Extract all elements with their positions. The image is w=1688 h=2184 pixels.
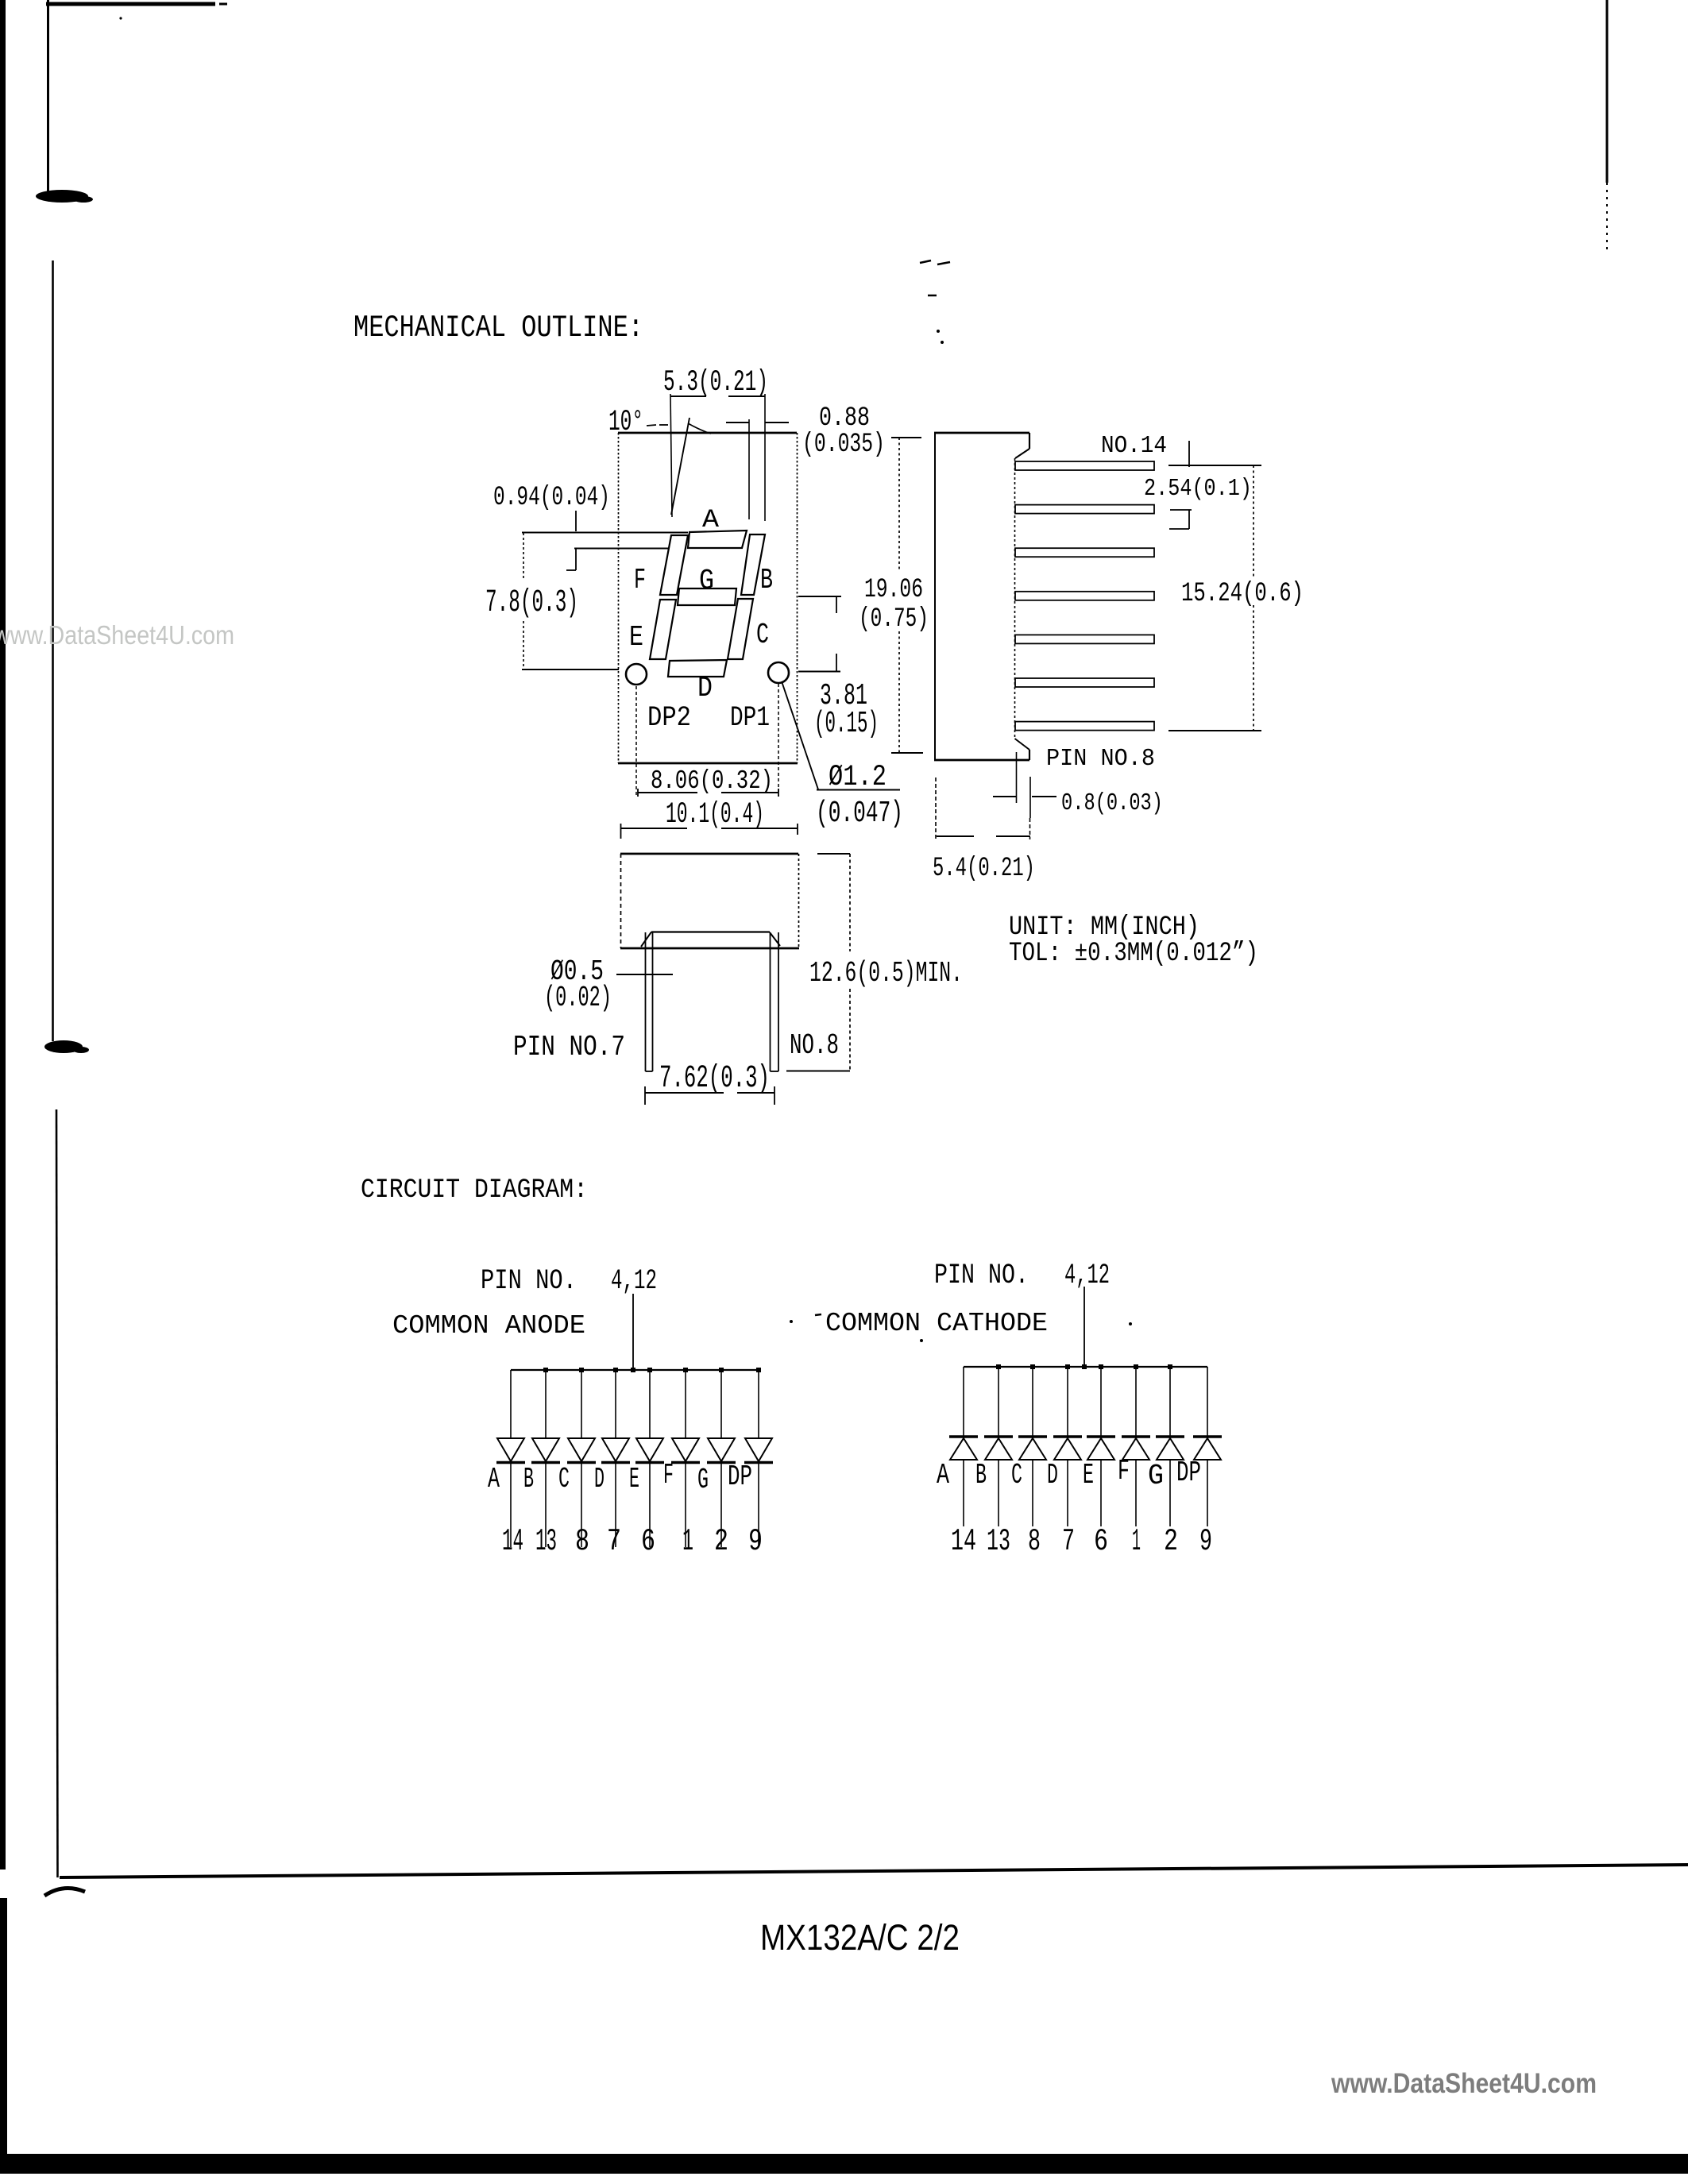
svg-text:B: B — [523, 1463, 534, 1495]
svg-text:(0.15): (0.15) — [814, 707, 879, 741]
svg-text:8: 8 — [1028, 1524, 1041, 1559]
svg-text:0.94(0.04): 0.94(0.04) — [493, 483, 610, 513]
svg-text:D: D — [697, 672, 713, 704]
svg-text:MECHANICAL OUTLINE:: MECHANICAL OUTLINE: — [353, 311, 643, 345]
svg-text:(0.02): (0.02) — [544, 982, 612, 1014]
svg-text:B: B — [975, 1459, 987, 1491]
svg-text:DP2: DP2 — [647, 702, 691, 734]
svg-text:G: G — [697, 1464, 709, 1496]
svg-text:7: 7 — [1062, 1524, 1075, 1559]
svg-text:0.8(0.03): 0.8(0.03) — [1061, 789, 1163, 817]
svg-text:E: E — [1083, 1459, 1094, 1491]
svg-text:PIN NO.: PIN NO. — [481, 1265, 577, 1297]
svg-text:A: A — [937, 1459, 949, 1491]
svg-text:DP: DP — [728, 1461, 752, 1493]
svg-text:8: 8 — [575, 1524, 589, 1559]
svg-text:NO.8: NO.8 — [790, 1029, 839, 1062]
svg-text:(0.75): (0.75) — [859, 604, 929, 635]
svg-text:13: 13 — [535, 1524, 557, 1559]
svg-text:7.8(0.3): 7.8(0.3) — [485, 585, 578, 621]
svg-text:5.4(0.21): 5.4(0.21) — [933, 854, 1035, 884]
svg-text:PIN NO.8: PIN NO.8 — [1046, 745, 1155, 773]
svg-text:(0.047): (0.047) — [816, 797, 903, 831]
svg-text:A: A — [488, 1463, 500, 1495]
svg-text:G: G — [699, 565, 714, 597]
svg-text:8.06(0.32): 8.06(0.32) — [651, 766, 773, 796]
svg-text:4,12: 4,12 — [1064, 1260, 1110, 1291]
svg-text:2: 2 — [1164, 1524, 1178, 1559]
svg-text:F: F — [663, 1459, 674, 1491]
svg-text:www.DataSheet4U.com: www.DataSheet4U.com — [0, 620, 234, 650]
svg-text:DP: DP — [1176, 1457, 1201, 1489]
svg-text:5.3(0.21): 5.3(0.21) — [663, 366, 768, 399]
svg-text:1: 1 — [1132, 1524, 1141, 1559]
svg-text:G: G — [1148, 1460, 1164, 1492]
svg-text:DP1: DP1 — [730, 702, 770, 734]
svg-text:PIN NO.: PIN NO. — [934, 1260, 1029, 1291]
svg-text:C: C — [1011, 1459, 1022, 1491]
svg-text:F: F — [1118, 1455, 1130, 1488]
svg-text:F: F — [634, 564, 646, 596]
svg-text:COMMON ANODE: COMMON ANODE — [392, 1311, 585, 1341]
svg-text:CIRCUIT DIAGRAM:: CIRCUIT DIAGRAM: — [361, 1175, 588, 1206]
svg-text:(0.035): (0.035) — [802, 430, 885, 460]
svg-text:14: 14 — [951, 1524, 976, 1559]
svg-text:D: D — [594, 1463, 605, 1495]
svg-text:10°: 10° — [608, 406, 643, 439]
svg-text:2.54(0.1): 2.54(0.1) — [1144, 475, 1252, 503]
svg-text:9: 9 — [1199, 1524, 1212, 1559]
svg-text:10.1(0.4): 10.1(0.4) — [666, 798, 764, 832]
svg-text:15.24(0.6): 15.24(0.6) — [1181, 579, 1304, 609]
svg-text:PIN NO.7: PIN NO.7 — [513, 1031, 625, 1063]
svg-text:7.62(0.3): 7.62(0.3) — [659, 1061, 770, 1097]
svg-text:COMMON CATHODE: COMMON CATHODE — [825, 1309, 1048, 1338]
svg-text:6: 6 — [1094, 1524, 1108, 1559]
svg-text:D: D — [1047, 1459, 1058, 1491]
svg-text:13: 13 — [987, 1524, 1010, 1559]
svg-text:MX132A/C 2/2: MX132A/C 2/2 — [760, 1917, 960, 1958]
svg-text:2: 2 — [714, 1524, 728, 1559]
svg-text:A: A — [702, 505, 720, 534]
svg-text:9: 9 — [748, 1524, 763, 1559]
svg-text:19.06: 19.06 — [864, 575, 923, 605]
svg-text:6: 6 — [641, 1524, 655, 1559]
svg-text:E: E — [629, 1463, 639, 1495]
svg-text:E: E — [629, 621, 643, 654]
svg-text:1: 1 — [682, 1524, 693, 1559]
svg-text:14: 14 — [502, 1524, 523, 1559]
svg-text:Ø1.2: Ø1.2 — [829, 761, 886, 794]
svg-text:C: C — [756, 619, 769, 651]
svg-text:TOL: ±0.3MM(0.012”): TOL: ±0.3MM(0.012”) — [1009, 939, 1258, 969]
svg-text:7: 7 — [607, 1524, 621, 1559]
svg-text:B: B — [760, 564, 773, 596]
svg-text:4,12: 4,12 — [611, 1265, 657, 1297]
svg-text:www.DataSheet4U.com: www.DataSheet4U.com — [1331, 2068, 1597, 2099]
svg-text:C: C — [558, 1463, 570, 1495]
svg-text:12.6(0.5)MIN.: 12.6(0.5)MIN. — [809, 957, 963, 990]
svg-text:NO.14: NO.14 — [1101, 432, 1167, 460]
